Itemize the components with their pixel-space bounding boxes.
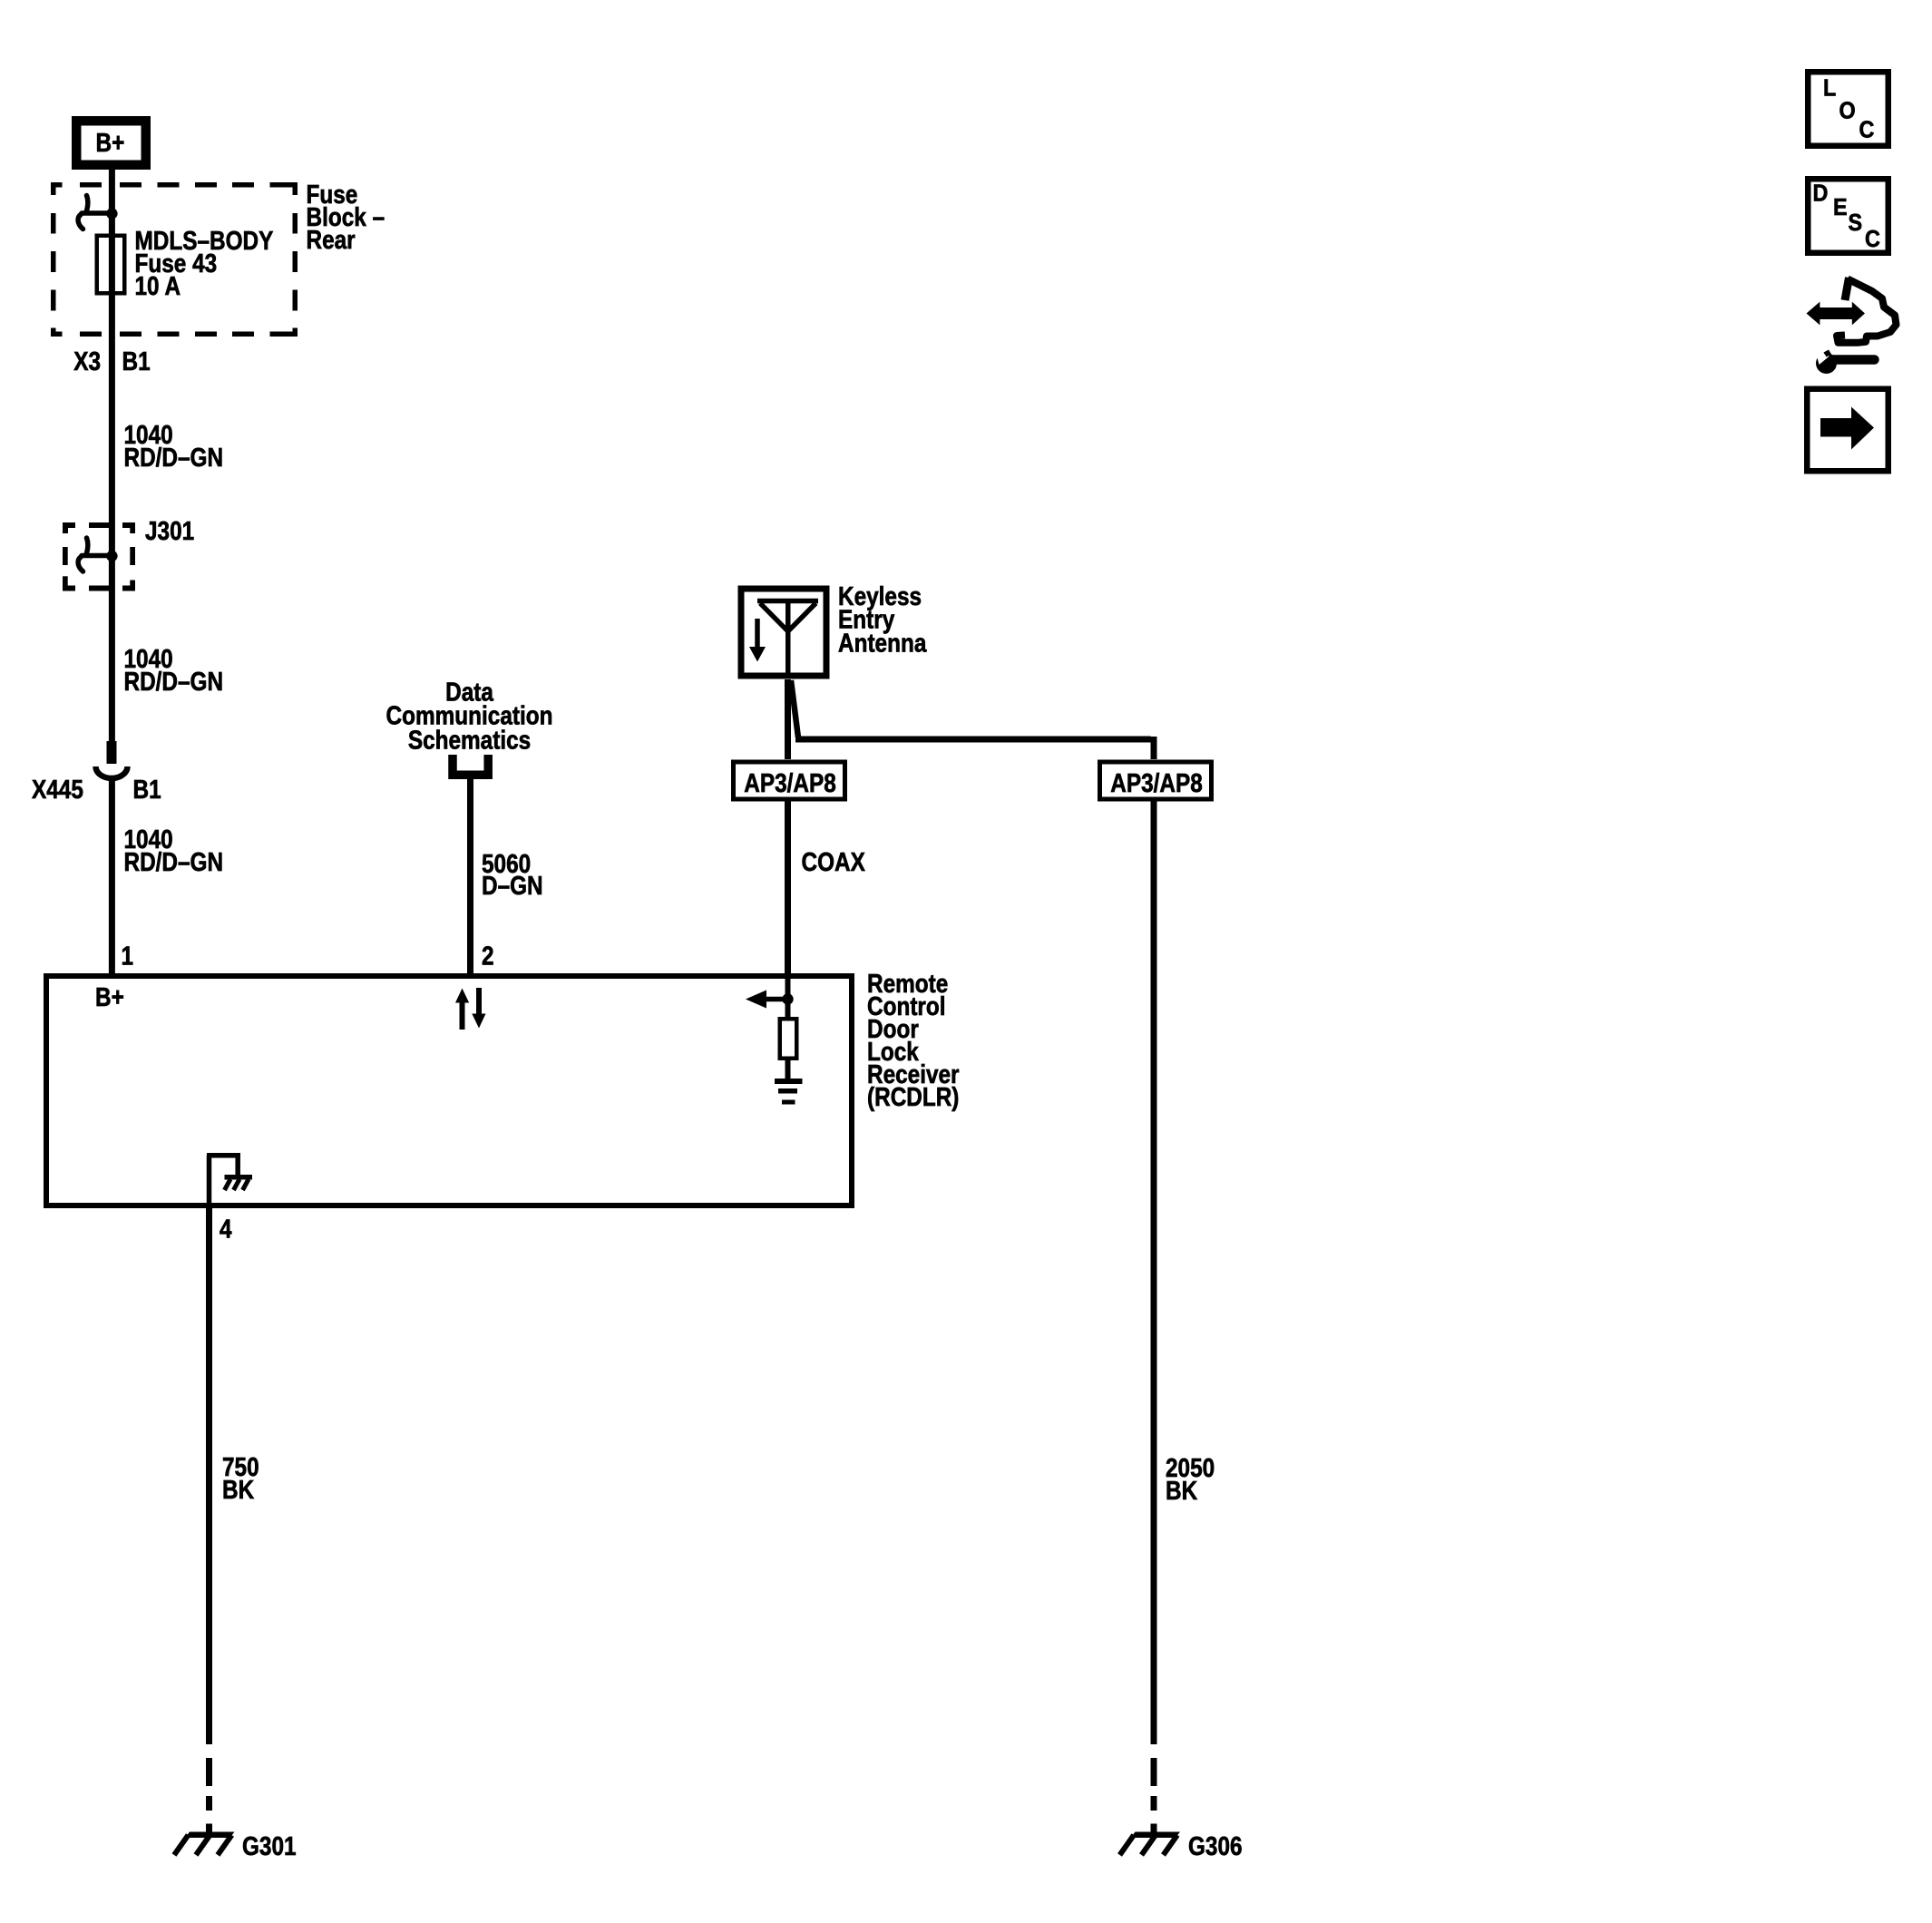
svg-text:10 A: 10 A — [135, 271, 181, 300]
svg-text:Schematics: Schematics — [408, 726, 531, 755]
label J301 — [145, 516, 194, 545]
chassis ground G306 — [1131, 1832, 1181, 1839]
svg-text:C: C — [1865, 227, 1880, 252]
svg-text:D–GN: D–GN — [482, 871, 543, 900]
svg-text:X3: X3 — [73, 347, 101, 376]
pin label 2 — [482, 942, 494, 971]
antenna symbol — [757, 601, 818, 679]
wire label 750 BK — [222, 1452, 259, 1481]
fuse block label — [307, 180, 358, 209]
label Keyless Entry Antenna — [838, 581, 922, 610]
svg-text:AP3/AP8: AP3/AP8 — [1110, 768, 1203, 797]
labels X445 / B1 — [32, 775, 83, 804]
wire label 2050 BK — [1166, 1453, 1215, 1482]
fuse MDLS-BODY Fuse 43 10A — [97, 236, 125, 294]
wire: battery feed from B+ down to RCDLR pin 1 — [109, 169, 115, 742]
antenna input network: wire into box — [785, 973, 791, 1017]
chassis ground G301 — [185, 1832, 235, 1839]
pin label 4 — [220, 1215, 232, 1244]
serial data up/down arrows — [460, 1001, 465, 1030]
RCDLR component box — [46, 976, 852, 1206]
svg-text:BK: BK — [222, 1475, 255, 1504]
label G306 — [1188, 1831, 1243, 1860]
internal signal ground — [775, 1079, 803, 1084]
pin label 1 — [122, 942, 134, 971]
antenna receive down-arrow — [755, 619, 760, 649]
pin B+ label inside RCDLR — [95, 982, 124, 1011]
keyless entry antenna box — [741, 589, 826, 676]
splice J301 hook symbol — [78, 538, 110, 571]
junction dot J301 — [106, 551, 117, 561]
label COAX — [802, 847, 865, 876]
svg-text:E: E — [1833, 195, 1848, 220]
connector box AP3/AP8 (right) — [1100, 762, 1212, 799]
icon LOC box — [1808, 72, 1888, 146]
icon DESC box — [1808, 179, 1888, 253]
svg-text:L: L — [1823, 75, 1836, 101]
svg-text:G301: G301 — [242, 1831, 297, 1860]
svg-text:COAX: COAX — [802, 847, 865, 876]
label Remote Control Door Lock Receiver (RCDLR) — [867, 969, 948, 998]
wire: coax below left AP3/AP8 to RCDLR — [785, 802, 791, 974]
in-line connector X445: male blade — [107, 741, 117, 764]
svg-text:BK: BK — [1166, 1476, 1198, 1505]
svg-text:RD/D–GN: RD/D–GN — [124, 443, 224, 472]
fuse block dashed box (Fuse Block - Rear) — [51, 182, 298, 337]
svg-text:B1: B1 — [133, 775, 161, 804]
svg-text:AP3/AP8: AP3/AP8 — [744, 768, 836, 797]
svg-text:G306: G306 — [1188, 1831, 1243, 1860]
coax branch horizontal to right AP3/AP8 — [795, 737, 1151, 743]
dashed continuation to G306 — [1151, 1758, 1157, 1833]
splice J301 dashed box — [63, 522, 135, 591]
connector box AP3/AP8 (left) — [734, 762, 845, 799]
receive arrow pointing left — [765, 997, 788, 1002]
wire: ground 750 BK — [206, 1208, 212, 1744]
icon forward arrow box — [1807, 389, 1888, 472]
label G301 — [242, 1831, 297, 1860]
icon car silhouette with direction arrow and wrench — [1837, 278, 1897, 343]
wire label 1040 RD/D-GN (upper) — [124, 420, 173, 449]
wire label 5060 D-GN — [482, 849, 531, 878]
wire: serial data 5060 D-GN down to RCDLR pin 2 — [467, 779, 473, 973]
svg-text:RD/D–GN: RD/D–GN — [124, 847, 224, 876]
svg-text:C: C — [1859, 117, 1875, 142]
wire resistor to signal ground — [785, 1060, 791, 1079]
svg-text:Antenna: Antenna — [838, 629, 927, 658]
fuse element hook symbol in fuse block — [78, 196, 110, 229]
svg-text:D: D — [1813, 181, 1829, 206]
off-page reference bracket to Data Communication Schematics — [453, 755, 488, 775]
svg-text:J301: J301 — [145, 516, 194, 545]
svg-text:X445: X445 — [32, 775, 83, 804]
svg-text:4: 4 — [220, 1215, 232, 1244]
junction dot on coax input — [782, 993, 793, 1004]
svg-text:B+: B+ — [96, 128, 125, 157]
internal resistor — [780, 1019, 797, 1059]
label Data Communication Schematics — [445, 678, 494, 707]
svg-text:2: 2 — [482, 942, 494, 971]
wire: ground lead below right AP3/AP8 — [1151, 802, 1157, 1745]
junction dot at fuse feed — [106, 208, 117, 219]
svg-text:B1: B1 — [122, 347, 151, 376]
svg-text:S: S — [1849, 210, 1863, 236]
svg-text:Rear: Rear — [307, 225, 356, 254]
svg-text:(RCDLR): (RCDLR) — [867, 1082, 959, 1111]
internal ground pin 4 symbol — [207, 1156, 212, 1208]
svg-text:O: O — [1839, 98, 1856, 123]
wire label 1040 RD/D-GN (lower) — [124, 825, 173, 854]
in-line connector X445: female socket arc — [95, 766, 127, 778]
wire label 1040 RD/D-GN (middle) — [124, 644, 173, 673]
power symbol B+ — [72, 116, 151, 170]
svg-text:RD/D–GN: RD/D–GN — [124, 667, 224, 696]
coax branch diagonal — [791, 680, 798, 737]
svg-text:B+: B+ — [95, 982, 124, 1011]
coax wire: antenna to left AP3/AP8 — [785, 679, 791, 759]
connector labels X3 / B1 — [73, 347, 101, 376]
svg-text:1: 1 — [122, 942, 134, 971]
fuse value label — [135, 226, 274, 255]
